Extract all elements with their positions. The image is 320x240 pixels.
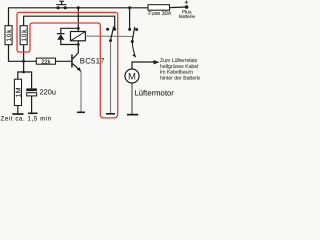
wire R4 to ground — [17, 106, 19, 114]
red highlight wire loop — [17, 12, 118, 118]
wire contact A common to ground — [110, 41, 112, 113]
node rail to coil — [77, 6, 80, 9]
svg-text:220u: 220u — [40, 88, 56, 97]
fuse F1 — [148, 5, 187, 11]
node battery plus — [185, 5, 189, 9]
svg-text:10k: 10k — [21, 29, 28, 42]
node J1 — [22, 60, 25, 63]
svg-text:22k: 22k — [41, 58, 50, 65]
resistor R3 22k — [24, 58, 72, 65]
ground contact A — [106, 113, 115, 115]
wire R2 bottom through junction down — [23, 45, 25, 72]
svg-text:M: M — [128, 71, 136, 82]
svg-text:hinter der Batterie: hinter der Batterie — [160, 75, 200, 81]
switch S1 (push button on rail) — [56, 1, 66, 10]
mechanical link (gray) — [85, 35, 133, 37]
resistor R2 10k — [20, 26, 28, 45]
arrow to Zum Lüfterrelais — [154, 60, 160, 64]
ground emitter — [77, 112, 85, 114]
resistor R1 10k — [5, 26, 13, 45]
arrow contact B to motor node — [132, 43, 136, 58]
diode D1 flyback — [57, 28, 78, 44]
ground R4 — [12, 113, 23, 115]
relay contact K1a — [106, 26, 116, 42]
ground motor — [127, 114, 138, 116]
wire R2 top tap (to contact A feed) — [24, 16, 115, 28]
wire junction to RC timing — [18, 72, 32, 88]
node coil top — [77, 27, 80, 30]
svg-text:Fuse 30A: Fuse 30A — [148, 11, 171, 17]
node J2 — [22, 71, 25, 74]
wire motor to ground — [131, 83, 133, 114]
svg-text:Lüftermotor: Lüftermotor — [135, 88, 175, 97]
svg-text:Zeit ca. 1,5 min: Zeit ca. 1,5 min — [1, 116, 52, 123]
node coil bottom — [77, 43, 80, 46]
wire R1 bottom to junction — [9, 45, 24, 62]
svg-text:Batterie: Batterie — [179, 14, 196, 19]
relay coil K1 — [71, 8, 86, 45]
wire top supply rail — [9, 8, 149, 26]
wire motor node — [132, 62, 155, 69]
wire emitter to ground — [80, 71, 82, 112]
resistor R4 1M — [14, 79, 22, 105]
motor M1 — [125, 69, 139, 83]
relay contact K1b — [128, 6, 138, 43]
svg-text:1M: 1M — [16, 87, 23, 97]
capacitor C1 220u — [26, 88, 37, 95]
text Zum Lüfterrelais block — [160, 58, 201, 81]
wire C1 to ground — [31, 96, 33, 113]
svg-text:10k: 10k — [6, 29, 13, 42]
plus sign — [185, 0, 189, 4]
transistor Q1 BC517 — [71, 45, 81, 72]
ground C1 — [28, 113, 38, 115]
